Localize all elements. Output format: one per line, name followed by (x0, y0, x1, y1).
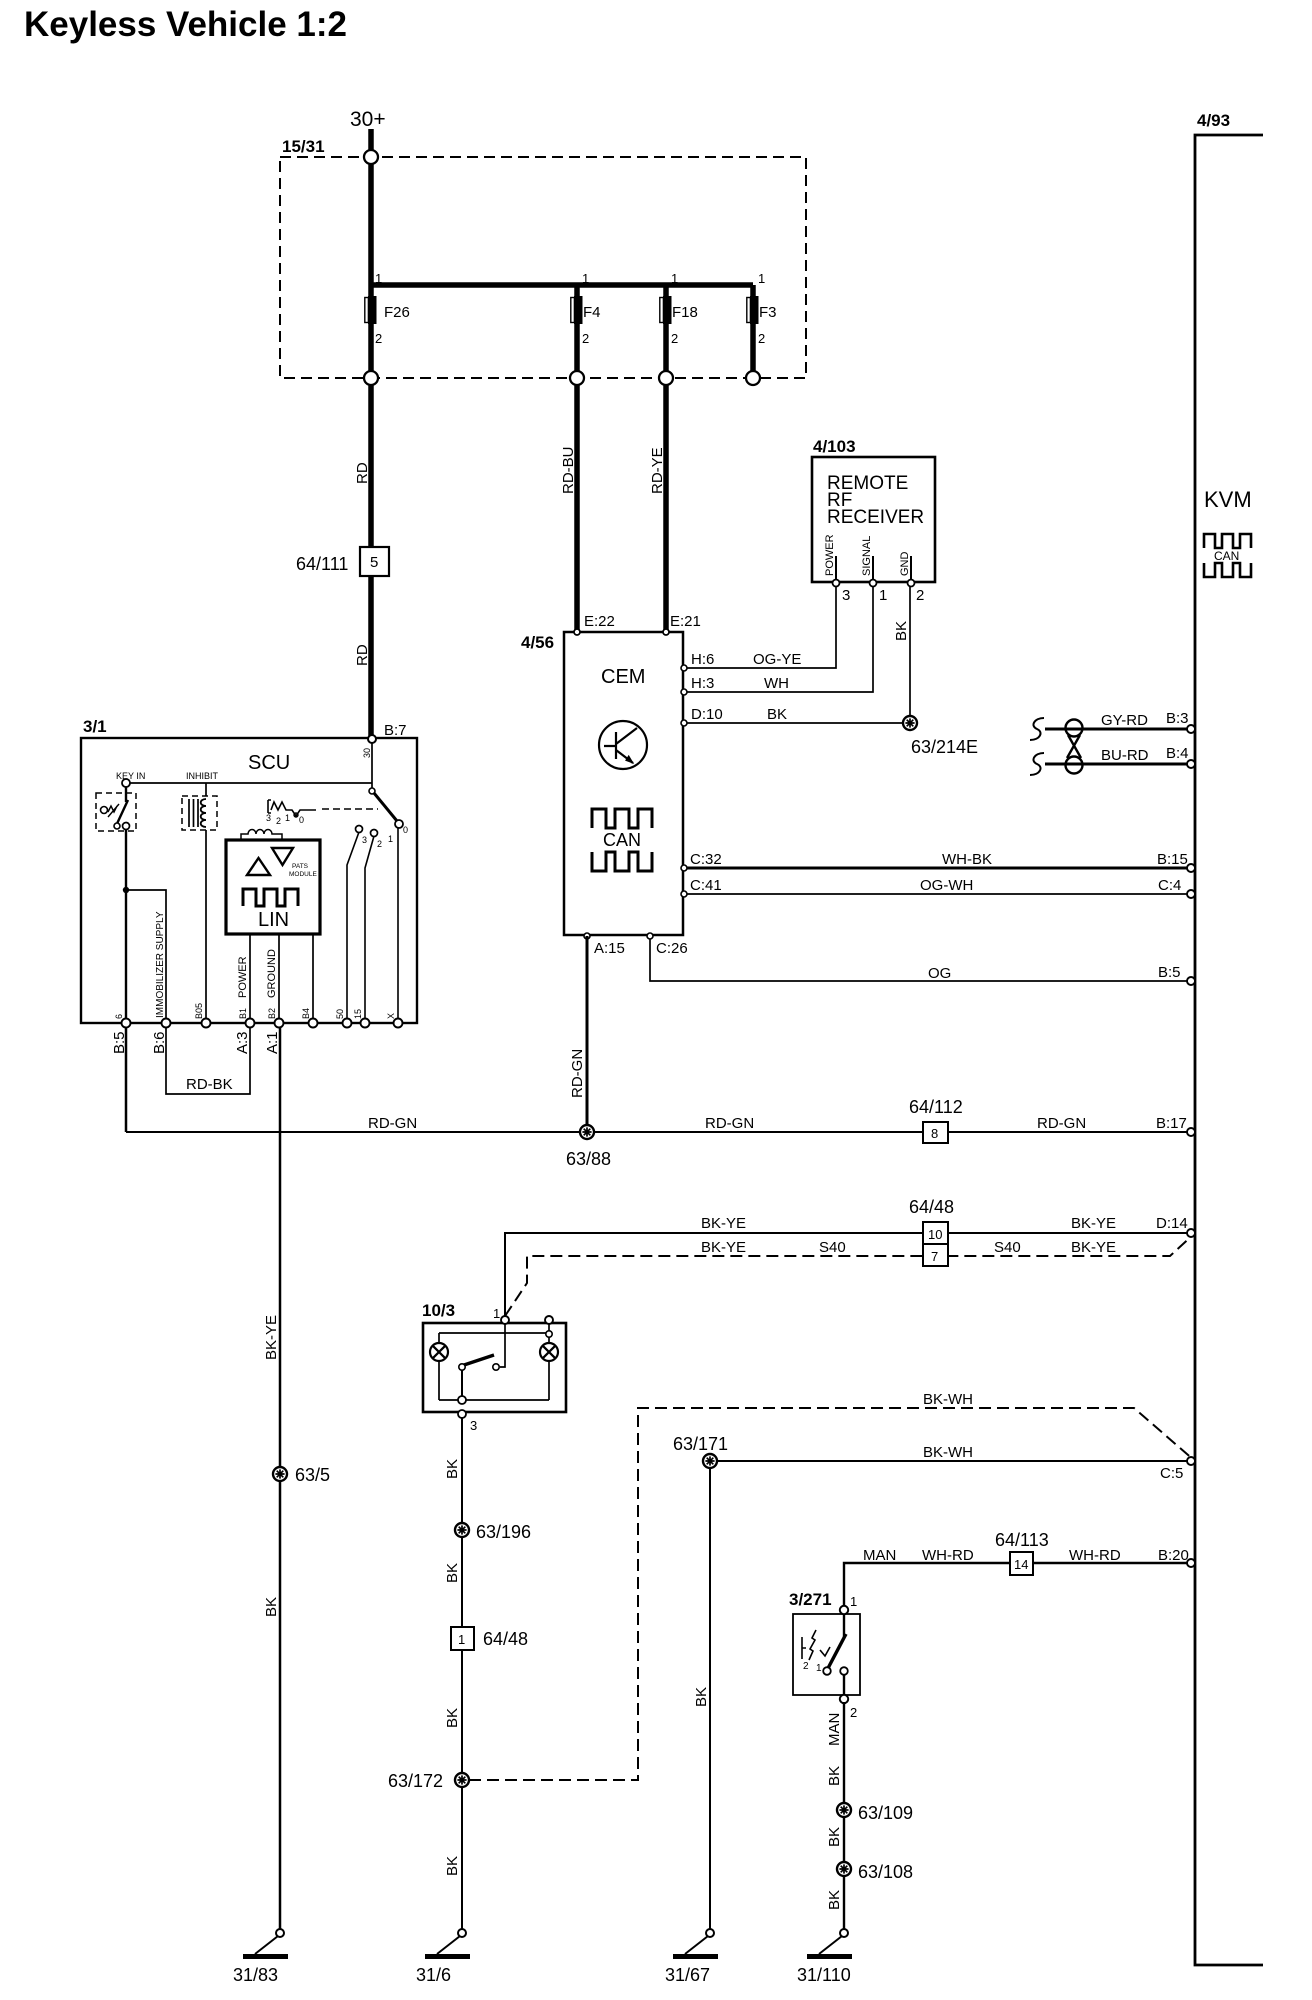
svg-text:RD: RD (354, 462, 371, 484)
svg-text:2: 2 (377, 839, 382, 849)
svg-text:B:5: B:5 (1158, 964, 1181, 981)
svg-text:BK: BK (444, 1856, 461, 1876)
svg-text:S40: S40 (994, 1239, 1021, 1256)
svg-text:31/6: 31/6 (416, 1965, 451, 1985)
svg-text:1: 1 (758, 271, 765, 286)
svg-text:B:15: B:15 (1157, 851, 1188, 868)
svg-text:10/3: 10/3 (422, 1301, 455, 1320)
svg-text:C:26: C:26 (656, 940, 688, 957)
svg-text:1: 1 (582, 271, 589, 286)
svg-text:WH-BK: WH-BK (942, 851, 992, 868)
svg-text:RD-GN: RD-GN (569, 1049, 586, 1098)
svg-text:RD-GN: RD-GN (368, 1115, 417, 1132)
svg-text:A:1: A:1 (264, 1031, 281, 1054)
svg-text:2: 2 (758, 331, 765, 346)
svg-text:3/271: 3/271 (789, 1590, 832, 1609)
svg-text:64/113: 64/113 (995, 1530, 1049, 1550)
svg-text:1: 1 (285, 813, 290, 823)
svg-text:MAN: MAN (863, 1547, 896, 1564)
svg-text:BK: BK (767, 706, 787, 723)
svg-text:KEY IN: KEY IN (116, 771, 145, 781)
svg-text:0: 0 (299, 815, 304, 825)
svg-text:BK-YE: BK-YE (1071, 1215, 1116, 1232)
svg-text:B1: B1 (238, 1008, 248, 1019)
svg-text:50: 50 (335, 1009, 345, 1019)
svg-text:CAN: CAN (1214, 549, 1239, 563)
svg-text:30+: 30+ (350, 108, 386, 131)
svg-text:BK: BK (893, 621, 910, 641)
svg-text:14: 14 (1014, 1557, 1028, 1572)
svg-text:5: 5 (370, 554, 378, 571)
svg-text:INHIBIT: INHIBIT (186, 771, 219, 781)
svg-text:F26: F26 (384, 304, 410, 321)
svg-text:OG: OG (928, 965, 951, 982)
svg-text:BK-YE: BK-YE (701, 1215, 746, 1232)
svg-text:RECEIVER: RECEIVER (827, 507, 924, 528)
svg-text:H:3: H:3 (691, 675, 714, 692)
svg-text:2: 2 (803, 1661, 809, 1672)
svg-text:31/83: 31/83 (233, 1965, 278, 1985)
svg-text:BK: BK (826, 1827, 843, 1847)
svg-text:MAN: MAN (826, 1713, 843, 1746)
svg-text:2: 2 (850, 1705, 857, 1720)
svg-text:B:17: B:17 (1156, 1115, 1187, 1132)
svg-text:BK: BK (444, 1708, 461, 1728)
svg-text:1: 1 (850, 1594, 857, 1609)
svg-text:2: 2 (276, 816, 281, 826)
svg-text:63/171: 63/171 (673, 1434, 728, 1454)
svg-text:F3: F3 (759, 304, 777, 321)
svg-text:S40: S40 (819, 1239, 846, 1256)
svg-text:64/112: 64/112 (909, 1097, 963, 1117)
svg-text:B:7: B:7 (384, 722, 407, 739)
svg-text:BK: BK (826, 1766, 843, 1786)
svg-text:F4: F4 (583, 304, 601, 321)
svg-text:X: X (386, 1013, 396, 1019)
svg-text:63/108: 63/108 (858, 1862, 913, 1882)
svg-text:E:21: E:21 (670, 613, 701, 630)
svg-text:1: 1 (671, 271, 678, 286)
svg-text:C:32: C:32 (690, 851, 722, 868)
svg-text:C:4: C:4 (1158, 877, 1181, 894)
svg-text:OG-WH: OG-WH (920, 877, 973, 894)
svg-text:WH-RD: WH-RD (1069, 1547, 1121, 1564)
svg-text:D:10: D:10 (691, 706, 723, 723)
svg-text:15/31: 15/31 (282, 137, 325, 156)
svg-text:0: 0 (403, 825, 408, 835)
svg-text:B:20: B:20 (1158, 1547, 1189, 1564)
svg-text:2: 2 (582, 331, 589, 346)
svg-text:CAN: CAN (603, 830, 641, 850)
svg-text:RD-GN: RD-GN (1037, 1115, 1086, 1132)
svg-text:1: 1 (816, 1663, 822, 1674)
svg-text:RD: RD (354, 644, 371, 666)
svg-text:3: 3 (470, 1418, 477, 1433)
svg-text:3/1: 3/1 (83, 717, 107, 736)
svg-text:RD-BK: RD-BK (186, 1076, 233, 1093)
svg-text:SCU: SCU (248, 752, 290, 774)
svg-text:15: 15 (353, 1009, 363, 1019)
svg-text:6: 6 (114, 1014, 124, 1019)
svg-text:31/110: 31/110 (797, 1965, 851, 1985)
svg-text:30: 30 (362, 748, 372, 758)
svg-text:POWER: POWER (824, 534, 836, 576)
svg-text:BU-RD: BU-RD (1101, 747, 1149, 764)
svg-text:KVM: KVM (1204, 487, 1252, 512)
svg-text:1: 1 (879, 587, 887, 604)
svg-text:OG-YE: OG-YE (753, 651, 801, 668)
svg-text:WH-RD: WH-RD (922, 1547, 974, 1564)
svg-text:1: 1 (493, 1306, 500, 1321)
svg-text:63/109: 63/109 (858, 1803, 913, 1823)
svg-text:2: 2 (916, 587, 924, 604)
svg-text:CEM: CEM (601, 666, 645, 688)
svg-text:4/103: 4/103 (813, 437, 856, 456)
svg-text:IMMOBILIZER SUPPLY: IMMOBILIZER SUPPLY (155, 911, 166, 1018)
svg-text:BK: BK (263, 1597, 280, 1617)
svg-text:2: 2 (671, 331, 678, 346)
svg-text:B:4: B:4 (1166, 745, 1189, 762)
svg-text:64/48: 64/48 (483, 1629, 528, 1649)
svg-text:4/93: 4/93 (1197, 111, 1230, 130)
svg-text:BK: BK (693, 1687, 710, 1707)
svg-text:3: 3 (266, 813, 271, 823)
svg-text:LIN: LIN (258, 909, 289, 931)
svg-text:A:3: A:3 (234, 1031, 251, 1054)
svg-text:BK-YE: BK-YE (1071, 1239, 1116, 1256)
svg-text:31/67: 31/67 (665, 1965, 710, 1985)
svg-text:E:22: E:22 (584, 613, 615, 630)
svg-text:POWER: POWER (237, 956, 249, 998)
svg-text:7: 7 (931, 1249, 938, 1264)
svg-text:RD-GN: RD-GN (705, 1115, 754, 1132)
svg-text:10: 10 (928, 1227, 942, 1242)
svg-text:BK: BK (444, 1459, 461, 1479)
svg-text:D:14: D:14 (1156, 1215, 1188, 1232)
svg-text:1: 1 (388, 834, 393, 844)
svg-text:4/56: 4/56 (521, 633, 554, 652)
svg-text:F18: F18 (672, 304, 698, 321)
svg-text:H:6: H:6 (691, 651, 714, 668)
svg-text:RD-YE: RD-YE (649, 447, 666, 494)
svg-text:BK-YE: BK-YE (263, 1315, 280, 1360)
svg-text:B4: B4 (301, 1008, 311, 1019)
svg-text:MODULE: MODULE (289, 871, 317, 878)
svg-text:63/196: 63/196 (476, 1522, 531, 1542)
svg-text:SIGNAL: SIGNAL (861, 536, 873, 576)
svg-text:63/88: 63/88 (566, 1149, 611, 1169)
svg-text:B2: B2 (267, 1008, 277, 1019)
svg-text:RD-BU: RD-BU (560, 447, 577, 495)
svg-text:BK-WH: BK-WH (923, 1391, 973, 1408)
svg-text:C:5: C:5 (1160, 1465, 1183, 1482)
svg-text:BK: BK (444, 1563, 461, 1583)
svg-text:GND: GND (899, 552, 911, 577)
svg-text:3: 3 (362, 835, 367, 845)
svg-text:A:15: A:15 (594, 940, 625, 957)
svg-text:8: 8 (931, 1126, 938, 1141)
svg-text:63/214E: 63/214E (911, 737, 978, 757)
svg-text:Keyless Vehicle 1:2: Keyless Vehicle 1:2 (24, 5, 347, 44)
svg-text:63/172: 63/172 (388, 1771, 443, 1791)
svg-text:64/111: 64/111 (296, 554, 348, 574)
svg-text:1: 1 (375, 271, 382, 286)
svg-text:C:41: C:41 (690, 877, 722, 894)
svg-text:B05: B05 (194, 1003, 204, 1019)
svg-text:2: 2 (375, 331, 382, 346)
svg-text:PATS: PATS (292, 863, 309, 870)
svg-text:GY-RD: GY-RD (1101, 712, 1148, 729)
svg-text:1: 1 (458, 1632, 465, 1647)
svg-text:BK-WH: BK-WH (923, 1444, 973, 1461)
svg-text:BK: BK (826, 1890, 843, 1910)
svg-text:BK-YE: BK-YE (701, 1239, 746, 1256)
svg-text:63/5: 63/5 (295, 1465, 330, 1485)
svg-text:WH: WH (764, 675, 789, 692)
svg-text:64/48: 64/48 (909, 1197, 954, 1217)
svg-text:GROUND: GROUND (266, 949, 278, 998)
svg-text:B:3: B:3 (1166, 710, 1189, 727)
svg-text:3: 3 (842, 587, 850, 604)
